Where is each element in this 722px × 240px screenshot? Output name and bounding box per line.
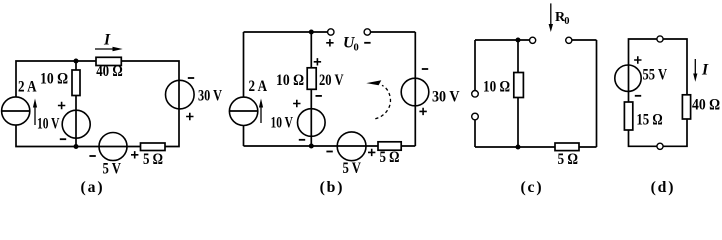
node top junction (a) <box>74 59 79 64</box>
terminal top right (c) <box>566 37 572 43</box>
svg-text:40 Ω: 40 Ω <box>692 97 720 114</box>
wire (b) middle branch <box>310 32 312 146</box>
wire (c) left lower segment <box>474 117 476 148</box>
svg-text:(c): (c) <box>520 179 543 196</box>
wire (c) left upper segment <box>474 40 476 94</box>
wire (c) top right segment <box>569 39 597 41</box>
node top junction (b) <box>309 30 314 35</box>
node bottom junction (a) <box>74 144 79 149</box>
voltage source 5 V (a) <box>89 133 138 178</box>
terminal bottom (d) <box>657 143 663 149</box>
wire (b) left side <box>243 32 245 146</box>
resistor 5 Ohm (c) <box>555 143 579 168</box>
svg-text:5 Ω: 5 Ω <box>143 151 163 168</box>
wire (b) top left segment <box>244 31 331 33</box>
resistor 40 Ohm (a) <box>96 57 123 80</box>
current source 2 A (a) <box>2 79 37 126</box>
voltage source 5 V (b) <box>326 132 375 177</box>
resistor 15 Ohm (d) <box>624 102 662 130</box>
svg-text:10 Ω: 10 Ω <box>40 70 68 87</box>
terminal - of U0 (b) <box>364 29 370 35</box>
svg-text:5 V: 5 V <box>103 160 122 177</box>
current arrow I (d) <box>693 59 709 82</box>
svg-text:I: I <box>103 32 111 49</box>
terminal left lower (c) <box>472 113 479 120</box>
svg-text:(b): (b) <box>320 179 345 196</box>
voltage source 10 V (a) <box>37 102 90 139</box>
svg-text:0: 0 <box>354 43 359 54</box>
wire (b) right side <box>414 32 416 146</box>
voltage source 30 V (a) <box>166 78 223 120</box>
resistor 5 Ohm (b) <box>378 142 401 166</box>
resistor 40 Ohm (d) <box>682 95 720 119</box>
svg-text:30 V: 30 V <box>432 89 460 106</box>
svg-text:10 V: 10 V <box>37 115 60 132</box>
current arrow I (a) <box>95 32 123 52</box>
terminal top (d) <box>657 36 663 42</box>
wire (a) middle branch <box>75 61 77 147</box>
svg-text:30 V: 30 V <box>198 88 223 105</box>
terminal left upper (c) <box>472 91 479 98</box>
node top junction (c) <box>516 38 521 43</box>
svg-text:55 V: 55 V <box>643 67 668 84</box>
current source 2 A (b) <box>229 78 267 125</box>
terminal top left (c) <box>530 37 536 43</box>
svg-text:5 Ω: 5 Ω <box>380 149 400 166</box>
svg-text:2 A: 2 A <box>249 78 268 95</box>
svg-text:I: I <box>701 62 709 79</box>
resistor 10 Ohm with 20 V (b) <box>276 58 344 96</box>
wire (b) bottom side <box>244 145 416 147</box>
arrow for 2 A direction (a) <box>33 99 37 126</box>
label U0 (b) <box>326 35 370 54</box>
resistor 10 Ohm (a) <box>40 70 80 96</box>
svg-text:10 V: 10 V <box>271 115 294 132</box>
svg-text:10 Ω: 10 Ω <box>483 79 510 96</box>
svg-text:10 Ω: 10 Ω <box>276 72 304 89</box>
svg-text:20 V: 20 V <box>319 72 344 89</box>
wire (d) outer loop <box>629 39 688 146</box>
svg-text:(d): (d) <box>651 179 676 196</box>
wire (c) bottom side <box>475 146 597 148</box>
resistor 10 Ohm (c) <box>483 73 523 98</box>
wire (c) middle branch <box>517 40 519 147</box>
voltage source 30 V (b) <box>401 69 460 115</box>
voltage source 10 V (b) <box>271 100 326 140</box>
svg-text:40 Ω: 40 Ω <box>96 63 123 80</box>
node bottom junction (c) <box>516 145 521 150</box>
terminal + of U0 (b) <box>328 29 334 35</box>
svg-text:5 V: 5 V <box>343 160 362 177</box>
svg-text:15 Ω: 15 Ω <box>636 111 662 128</box>
wire (b) top right segment <box>367 31 415 33</box>
svg-text:(a): (a) <box>81 179 105 196</box>
svg-text:2 A: 2 A <box>18 79 37 96</box>
dashed loop arrow (b) <box>366 80 390 119</box>
arrow R0 (c) <box>549 3 570 32</box>
resistor 5 Ohm (a) <box>141 143 166 168</box>
svg-text:0: 0 <box>564 16 569 27</box>
wire (c) right side <box>596 40 598 147</box>
voltage source 55 V (d) <box>615 56 668 96</box>
arrow for 2 A direction (b) <box>259 99 263 124</box>
svg-text:5 Ω: 5 Ω <box>558 151 579 168</box>
node bottom junction (b) <box>309 144 314 149</box>
wire (c) top left segment <box>475 39 533 41</box>
wire (a) outer loop <box>16 61 179 147</box>
